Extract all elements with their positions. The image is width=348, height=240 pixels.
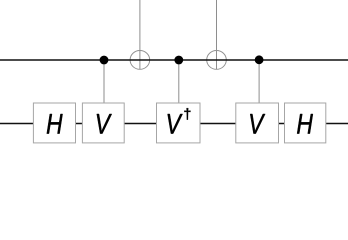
gate H2 box [285, 103, 326, 143]
wire qubit bottom [0, 122, 348, 124]
wire control vertical dot 2 to gate V-dagger [178, 60, 180, 104]
gate V-dagger label V [168, 114, 183, 134]
wire control vertical into CNOT target 1 [139, 0, 141, 69]
wire control vertical dot 3 to gate V2 [258, 60, 260, 104]
CNOT target 2 circle [207, 51, 227, 70]
gate H1 label [47, 114, 63, 134]
gate V2 label [250, 114, 265, 134]
control dot 1 [100, 56, 109, 65]
control dot 2 [174, 56, 183, 65]
gate V1 label [97, 114, 112, 134]
gate V-dagger label dagger [184, 108, 190, 120]
gate V2 box [236, 103, 279, 143]
wire control vertical dot 1 to gate V1 [103, 60, 105, 104]
gate H1 box [33, 103, 75, 143]
gate H2 label [297, 114, 313, 134]
gate V1 box [82, 103, 124, 143]
wire control vertical into CNOT target 2 [216, 0, 218, 69]
CNOT target 1 circle [130, 51, 150, 70]
wire qubit top [0, 59, 348, 61]
control dot 3 [255, 55, 264, 64]
gate V-dagger box [157, 103, 201, 143]
